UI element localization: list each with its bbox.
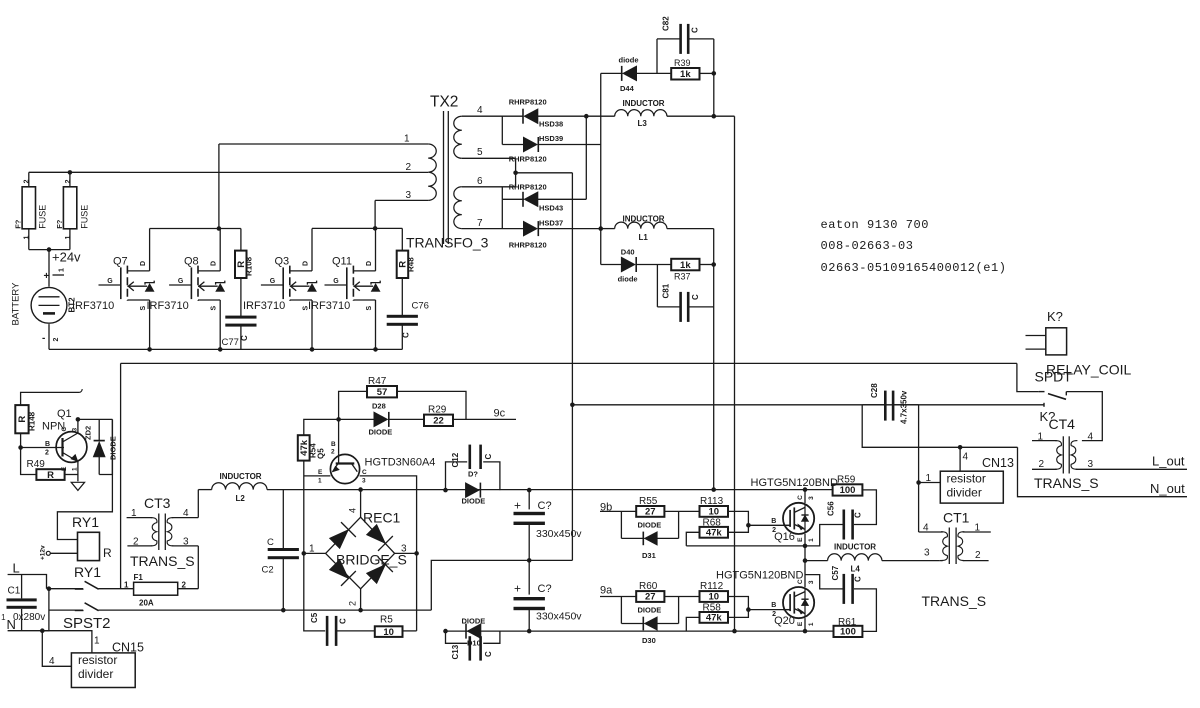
svg-text:+24v: +24v [52, 250, 81, 265]
wire TX2 pin6 [462, 176, 516, 187]
node Q20 gate [746, 607, 751, 612]
node L3-drop bottom [732, 629, 737, 634]
svg-text:3: 3 [406, 190, 412, 201]
wire CT1 pin3 [924, 548, 943, 561]
svg-text:C76: C76 [412, 301, 429, 312]
wire R148 top [21, 389, 83, 405]
svg-text:+: + [44, 271, 50, 282]
wire R108 to C77 [240, 278, 242, 317]
relay coil K? [1026, 309, 1132, 378]
svg-text:22: 22 [433, 416, 444, 427]
svg-text:C13: C13 [451, 644, 460, 659]
wire C28 right drop [918, 405, 920, 532]
svg-text:L1: L1 [639, 233, 649, 242]
fuse F? right [55, 172, 90, 249]
wire CN13 pin1 row [919, 473, 941, 484]
svg-text:eaton 9130 700: eaton 9130 700 [821, 218, 930, 232]
svg-text:9a: 9a [600, 585, 613, 597]
svg-text:3: 3 [808, 580, 815, 584]
svg-text:CT1: CT1 [943, 510, 970, 526]
capacitor C? upper 330x450v [514, 490, 583, 560]
diode D31 [621, 511, 678, 560]
node TX2 pin1 junction [217, 226, 222, 231]
svg-text:3: 3 [808, 496, 815, 500]
node cap bottom [527, 629, 532, 634]
svg-text:BRIDGE_S: BRIDGE_S [336, 552, 407, 568]
node 9c-row tap [570, 403, 575, 408]
svg-text:330x450v: 330x450v [536, 611, 582, 623]
wire CN15 pin1 row [42, 631, 92, 653]
svg-text:RY1: RY1 [74, 564, 101, 580]
svg-text:1: 1 [65, 236, 72, 240]
svg-text:DIODE: DIODE [638, 606, 662, 615]
wire R48 to C76 [401, 278, 403, 316]
svg-text:C57: C57 [831, 565, 840, 580]
wire bridge pin1 [304, 544, 326, 555]
wire R37 node down [713, 265, 715, 490]
wire CT3 pin3 to F1 [197, 546, 199, 589]
bridge diode upper-right [366, 524, 385, 543]
capacitor C13 [446, 631, 500, 661]
svg-text:Q8: Q8 [184, 256, 199, 268]
svg-text:G: G [107, 278, 113, 285]
svg-text:IRF3710: IRF3710 [72, 300, 114, 312]
svg-text:C81: C81 [662, 283, 671, 298]
wire 9c row to C28 [572, 404, 862, 406]
bridge diode upper-left [329, 530, 348, 549]
diode HSD43 RHRP8120 [502, 182, 586, 212]
svg-text:L3: L3 [638, 119, 648, 128]
svg-text:SPST2: SPST2 [63, 615, 111, 632]
bridge diode lower-left [329, 559, 348, 578]
svg-text:Q11: Q11 [332, 256, 352, 268]
svg-text:2: 2 [1039, 459, 1045, 470]
wire TX2 pin3 [375, 190, 428, 201]
svg-text:1: 1 [24, 236, 31, 240]
wire Q8 drain up [219, 229, 221, 271]
svg-text:D30: D30 [642, 636, 656, 645]
svg-text:divider: divider [947, 485, 982, 499]
wire bridge pin2 [348, 589, 361, 610]
wire relay to CT4 pin4 [1066, 392, 1102, 441]
wire CT4 pin3 L_out [1076, 454, 1187, 471]
wire 9c-row throw [862, 403, 1044, 407]
node D? anode [443, 488, 448, 493]
node center tap [513, 171, 518, 176]
svg-text:F?: F? [14, 219, 23, 229]
wire Q5 emitter [304, 475, 331, 477]
svg-text:4: 4 [1088, 432, 1094, 443]
svg-text:resistor: resistor [947, 471, 986, 485]
svg-text:10: 10 [708, 507, 719, 518]
svg-text:RHRP8120: RHRP8120 [509, 182, 547, 191]
node +24v junction [47, 247, 52, 252]
resistor R55 [636, 496, 699, 518]
node Q8 source [218, 347, 223, 352]
svg-text:C: C [61, 427, 68, 432]
wire Q20 gate row [748, 609, 790, 611]
svg-text:1: 1 [318, 478, 322, 485]
wire TX2 pin7 [462, 218, 523, 229]
transformer CT3 [130, 495, 195, 569]
capacitor C5 [310, 612, 348, 646]
node bridge pin1 [302, 551, 307, 556]
wire Q1 collector [77, 419, 79, 433]
svg-text:K?: K? [1047, 309, 1063, 324]
node bridge pin4 [358, 487, 363, 492]
svg-text:REC1: REC1 [363, 510, 401, 526]
resistor R39 [671, 58, 714, 80]
wire center tap [516, 158, 573, 187]
svg-text:47k: 47k [706, 613, 723, 624]
svg-text:DIODE: DIODE [462, 497, 486, 506]
svg-text:5: 5 [477, 147, 483, 158]
svg-text:D: D [366, 261, 373, 266]
wire TX2 pin2 [29, 162, 428, 173]
resistor R29 [424, 405, 516, 427]
node R47-D28 [336, 417, 341, 422]
wire Q16 gate row [748, 524, 790, 526]
wire fuse bottoms [29, 249, 70, 251]
transistor Q8 [169, 284, 191, 286]
svg-text:1: 1 [124, 581, 129, 590]
svg-text:C: C [267, 537, 274, 548]
svg-text:IRF3710: IRF3710 [308, 300, 350, 312]
svg-text:Q1: Q1 [57, 408, 72, 420]
diode HSD39 RHRP8120 [502, 134, 600, 164]
svg-text:E: E [797, 537, 804, 542]
ground Q1 [71, 482, 84, 490]
wire RY1 +12v lead [50, 552, 77, 554]
svg-text:G: G [270, 278, 276, 285]
svg-text:CN13: CN13 [982, 456, 1014, 470]
svg-text:L4: L4 [851, 565, 861, 574]
svg-text:2: 2 [348, 601, 358, 606]
svg-text:2: 2 [45, 450, 49, 457]
svg-text:C: C [339, 618, 348, 624]
svg-text:R: R [47, 470, 54, 481]
svg-text:1: 1 [808, 622, 815, 626]
svg-text:C: C [691, 27, 700, 33]
wire mid rail [121, 362, 1017, 364]
svg-text:HGTD3N60A4: HGTD3N60A4 [365, 457, 436, 469]
svg-text:HGTG5N120BND: HGTG5N120BND [751, 477, 838, 489]
svg-text:D44: D44 [620, 84, 635, 93]
svg-text:47k: 47k [706, 528, 723, 539]
svg-text:Q20: Q20 [774, 615, 795, 627]
diode HSD38 RHRP8120 [509, 98, 587, 129]
wire L-N drop [42, 589, 49, 631]
svg-text:C: C [691, 294, 700, 300]
wire CT4 pin2 stub [1032, 459, 1057, 470]
svg-text:D: D [303, 261, 310, 266]
diode D28 [339, 402, 424, 437]
relay coil RY1 [72, 514, 112, 580]
svg-text:100: 100 [840, 485, 856, 496]
wire 9a row [600, 596, 636, 598]
node fuse junction [68, 170, 73, 175]
svg-text:C5: C5 [310, 612, 319, 623]
svg-text:4: 4 [963, 452, 969, 463]
svg-text:3: 3 [1088, 459, 1094, 470]
svg-text:C: C [854, 512, 863, 518]
resistor R49 [21, 448, 78, 481]
bridge REC1 outline [326, 510, 407, 589]
wire Q20 emitter [804, 618, 806, 631]
svg-text:HSD37: HSD37 [539, 219, 563, 228]
svg-text:E: E [318, 469, 323, 476]
svg-text:F1: F1 [134, 573, 144, 582]
switch SPST2 lower [63, 603, 111, 632]
svg-text:IRF3710: IRF3710 [147, 300, 189, 312]
capacitor C12 [446, 445, 500, 491]
wire Q16 emitter [804, 534, 806, 561]
svg-text:C1: C1 [8, 586, 21, 597]
node CN13 pin4 node [958, 445, 963, 450]
svg-text:2: 2 [24, 179, 31, 183]
svg-text:C56: C56 [827, 501, 836, 516]
wire HSD39 anode branch [501, 116, 503, 144]
wire R148 bottom [20, 433, 22, 447]
svg-text:9c: 9c [494, 408, 506, 420]
svg-text:divider: divider [78, 667, 113, 681]
wire CT1 pin4 [919, 523, 943, 534]
wire ZD2 frame [99, 419, 112, 474]
wire Q16 emitter row [686, 545, 805, 547]
svg-text:+: + [514, 499, 521, 513]
resistor R48 [397, 251, 416, 278]
wire TX2 pin1 [219, 134, 428, 145]
svg-text:F?: F? [55, 219, 64, 229]
svg-text:IRF3710: IRF3710 [243, 300, 285, 312]
svg-text:1: 1 [309, 544, 315, 555]
transistor Q20 [783, 587, 814, 618]
wire CT4 pin1 stub [1032, 432, 1057, 443]
svg-text:+12v: +12v [40, 545, 47, 560]
wire CT3 pin1 stub [127, 508, 153, 519]
svg-text:1: 1 [94, 636, 100, 647]
svg-text:C28: C28 [870, 383, 879, 398]
node Q7 source [147, 347, 152, 352]
node Q1 base [18, 445, 23, 450]
svg-text:27: 27 [645, 592, 656, 603]
svg-text:N: N [7, 617, 16, 632]
zener ZD2 [84, 419, 118, 474]
wire upper switch row [49, 588, 83, 590]
connector CN13 resistor divider [940, 456, 1014, 503]
TX2 primary winding [428, 144, 436, 200]
wire CN13 pin4 lead [960, 447, 968, 471]
svg-text:D28: D28 [372, 402, 386, 411]
svg-text:1k: 1k [680, 260, 691, 271]
resistor R108 [235, 251, 254, 278]
resistor R47 [339, 376, 466, 419]
transformer CT4 [1034, 416, 1099, 491]
diode D30 [621, 597, 678, 646]
node caps midpoint [527, 558, 532, 563]
svg-text:R37: R37 [674, 272, 691, 282]
svg-text:B: B [771, 602, 776, 609]
svg-text:HSD39: HSD39 [539, 134, 563, 143]
svg-text:TX2: TX2 [430, 94, 458, 111]
svg-text:R: R [17, 416, 28, 423]
wire R108 top lead [240, 229, 242, 251]
svg-text:Q16: Q16 [774, 531, 795, 543]
wire CT3 pin4 [172, 508, 198, 519]
wire Q8 source [219, 300, 221, 349]
capacitor C56 [805, 501, 863, 546]
node cap top plus [527, 488, 532, 493]
wire Q5C-bridge3 drop [416, 553, 418, 631]
transistor Q7 [99, 284, 121, 286]
transistor Q11 [325, 284, 347, 286]
svg-text:1: 1 [59, 268, 66, 272]
node HSD38 junction [584, 114, 589, 119]
svg-text:27: 27 [645, 507, 656, 518]
svg-text:HSD43: HSD43 [539, 204, 563, 213]
svg-text:DIODE: DIODE [369, 428, 393, 437]
svg-text:2: 2 [331, 449, 335, 456]
switch SPST2 upper [75, 581, 99, 589]
svg-text:R108: R108 [245, 256, 254, 276]
node phase node [803, 558, 808, 563]
wire relay drive route [57, 419, 112, 539]
inductor L3 [586, 99, 734, 128]
svg-text:HGTG5N120BND: HGTG5N120BND [716, 570, 803, 582]
node bridge pin3 [414, 551, 419, 556]
wire battery plus lead [48, 250, 50, 287]
svg-text:R148: R148 [28, 411, 37, 431]
svg-text:diode: diode [618, 275, 638, 284]
battery BT2 [11, 268, 77, 344]
svg-text:100: 100 [840, 627, 856, 638]
capacitor C? lower 330x450v [514, 560, 583, 631]
svg-text:G: G [178, 278, 184, 285]
node CN13 pin1 node [916, 480, 921, 485]
svg-text:S: S [211, 306, 218, 311]
svg-text:02663-05109165400012(e1): 02663-05109165400012(e1) [821, 261, 1007, 275]
svg-text:Q3: Q3 [275, 256, 290, 268]
wire DC plus rail [304, 489, 833, 491]
wire N_out [1018, 447, 1188, 496]
wire Q11 drain up [375, 229, 377, 271]
wire caps mid link [431, 560, 572, 610]
svg-text:S: S [366, 306, 373, 311]
svg-text:7: 7 [477, 218, 483, 229]
node bridge pin2 [358, 608, 363, 613]
svg-text:2: 2 [406, 162, 412, 173]
svg-text:C: C [362, 469, 367, 476]
svg-text:3: 3 [924, 548, 930, 559]
resistor R59 [833, 475, 877, 525]
wire Q3 source [311, 300, 313, 349]
wire Q7 drain up [149, 229, 151, 271]
svg-text:INDUCTOR: INDUCTOR [220, 472, 262, 481]
svg-text:RHRP8120: RHRP8120 [509, 155, 547, 164]
resistor R60 [636, 581, 699, 603]
resistor R148 [15, 405, 36, 433]
svg-text:C: C [484, 651, 493, 657]
svg-text:E: E [797, 621, 804, 626]
svg-text:2: 2 [53, 338, 60, 342]
node Q20 emitter [803, 629, 808, 634]
transformer TX2 [406, 94, 489, 251]
wire Q7 source [149, 300, 151, 349]
svg-text:L: L [13, 561, 20, 576]
svg-text:DIODE: DIODE [462, 617, 486, 626]
wire center-tap drop [571, 173, 573, 561]
inductor L4 [805, 543, 940, 574]
node Q16 emitter [803, 544, 808, 549]
svg-text:1: 1 [808, 538, 815, 542]
svg-text:1: 1 [1, 613, 6, 622]
svg-text:0x280v: 0x280v [13, 612, 45, 623]
capacitor C82 [657, 16, 714, 74]
svg-text:R39: R39 [674, 58, 691, 68]
node winding2 DC junction [711, 487, 716, 492]
svg-text:diode: diode [619, 56, 639, 65]
svg-text:3: 3 [362, 478, 366, 485]
wire relay common [1017, 363, 1039, 391]
svg-text:1: 1 [926, 473, 932, 484]
wire HSD39 to D44 riser [600, 73, 602, 264]
wire CN15 pin4 [42, 631, 71, 667]
wire CT3 pin2 stub [127, 537, 152, 548]
svg-text:1k: 1k [680, 69, 691, 80]
svg-text:SPDT: SPDT [1035, 369, 1073, 385]
capacitor C28 4.7x350v [862, 383, 918, 424]
wire C28 left drop [862, 405, 1017, 448]
svg-text:4: 4 [348, 508, 358, 513]
svg-text:R5: R5 [380, 615, 393, 626]
TX2 secondary winding B [454, 187, 462, 229]
wire Q5 base [338, 419, 340, 454]
capacitor C81 [657, 265, 713, 322]
wire Q20 collector [804, 561, 806, 588]
svg-text:FUSE: FUSE [38, 205, 48, 229]
wire lower switch to bridge [99, 609, 432, 611]
svg-text:C?: C? [538, 583, 552, 595]
wire TX2 pin3 branch [312, 200, 402, 228]
node N junction [40, 628, 45, 633]
svg-text:2: 2 [975, 550, 981, 561]
resistor R58 [686, 603, 748, 632]
svg-text:R48: R48 [407, 257, 416, 272]
svg-text:Q7: Q7 [113, 256, 128, 268]
svg-text:2: 2 [65, 179, 72, 183]
node L3 out [712, 114, 717, 119]
svg-text:B: B [45, 441, 50, 448]
svg-text:CT3: CT3 [144, 495, 171, 511]
resistor R5 [375, 615, 417, 638]
wire TX2 pin1 branch [150, 144, 241, 229]
bridge diode lower-right [366, 565, 385, 584]
svg-text:L_out: L_out [1152, 454, 1185, 469]
node Q1 collector [76, 417, 81, 422]
diode D10 [462, 617, 486, 648]
svg-text:10: 10 [383, 627, 394, 638]
diode D40 [601, 248, 671, 284]
svg-text:1: 1 [404, 134, 410, 145]
svg-text:G: G [333, 278, 339, 285]
svg-text:TRANS_S: TRANS_S [130, 553, 195, 569]
fuse F1 20A [124, 573, 198, 608]
svg-text:L2: L2 [236, 494, 246, 503]
node Q11 source [373, 347, 378, 352]
capacitor C77 [222, 316, 257, 348]
svg-text:D: D [140, 261, 147, 266]
svg-text:TRANS_S: TRANS_S [922, 593, 987, 609]
